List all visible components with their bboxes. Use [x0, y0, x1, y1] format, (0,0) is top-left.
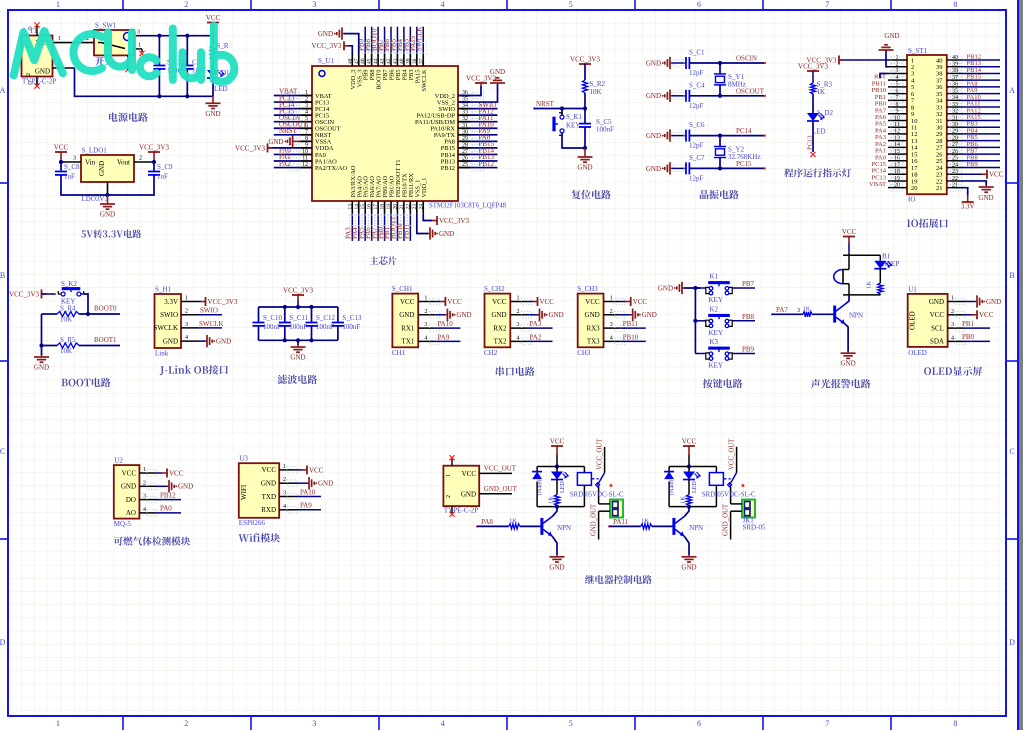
power VCC_3V3 filter	[297, 295, 299, 300]
svg-text:GND: GND	[978, 194, 993, 202]
svg-text:VCC: VCC	[169, 469, 184, 477]
MCUclub logo watermark	[14, 26, 235, 82]
svg-text:BOOT0: BOOT0	[94, 305, 117, 313]
net label PA15 (vertical)	[416, 27, 418, 54]
resistor S_R4 10K	[42, 313, 58, 315]
svg-text:44: 44	[373, 58, 379, 64]
svg-text:10: 10	[894, 115, 900, 121]
title: main chip	[370, 256, 397, 265]
net label BOOT0 (vertical)	[377, 27, 379, 54]
svg-text:TX3: TX3	[587, 338, 600, 346]
svg-text:ESP8266: ESP8266	[239, 519, 266, 527]
power VCC_3V3 at U1 VDD_1 bottom pin	[423, 214, 432, 221]
power VCC_3V3 at H1 pin1	[198, 301, 201, 303]
svg-text:24: 24	[418, 204, 424, 210]
U2 pin 4 AO	[139, 512, 155, 514]
power VCC_3V3 at U1 VDD_3 top pin	[344, 46, 352, 54]
svg-text:GND: GND	[491, 311, 506, 319]
net label PB12 wire	[961, 59, 1000, 61]
svg-text:MQ-5: MQ-5	[114, 520, 132, 528]
ST1 pin 10	[888, 119, 907, 121]
relay 1K resistor	[556, 479, 558, 495]
svg-text:KEY: KEY	[566, 122, 580, 130]
svg-text:RX3: RX3	[586, 324, 600, 332]
svg-text:19: 19	[894, 176, 900, 182]
ST1 pin 4	[888, 79, 907, 81]
svg-text:CH1: CH1	[392, 349, 406, 357]
capacitor S_C2 100n	[158, 36, 160, 66]
connector S_T1 TYPE-C-2P	[22, 36, 53, 77]
relay coil	[577, 473, 591, 486]
svg-text:2: 2	[305, 97, 308, 103]
net label SWCLK (vertical)	[422, 27, 424, 54]
svg-text:VCC_3V3: VCC_3V3	[312, 42, 342, 50]
alarm bottom node wire	[843, 294, 880, 296]
title: BOOT circuit	[61, 378, 110, 387]
net PA10	[434, 327, 460, 329]
svg-text:S_C1: S_C1	[689, 49, 705, 57]
svg-text:3: 3	[424, 322, 427, 328]
U1 right pin 26 PB13	[458, 160, 470, 162]
U1 top pin 42 PB6	[390, 54, 392, 66]
U1 OLED pin 2 VCC	[948, 314, 963, 316]
svg-text:U1: U1	[908, 285, 917, 293]
svg-text:22: 22	[952, 176, 958, 182]
diode 1N4007	[664, 471, 674, 473]
svg-text:1: 1	[424, 296, 427, 302]
no-connect pin 1 of S_SW1	[134, 48, 142, 50]
H1 pin 4 GND	[181, 340, 198, 342]
svg-text:TYPE-C-2P: TYPE-C-2P	[444, 507, 478, 515]
svg-text:SRD-05VDC-SL-C: SRD-05VDC-SL-C	[702, 492, 756, 499]
transistor NPN relay driver	[540, 518, 543, 535]
ST1 pin 32	[947, 113, 961, 115]
net label PB4 (vertical)	[403, 27, 405, 54]
key K2	[695, 320, 705, 322]
svg-text:S_R4: S_R4	[60, 305, 76, 313]
net PB8	[732, 320, 755, 322]
svg-text:2: 2	[26, 73, 32, 76]
svg-text:27: 27	[952, 142, 958, 148]
svg-text:30: 30	[462, 129, 468, 135]
svg-text:32: 32	[462, 116, 468, 122]
svg-text:VCC: VCC	[585, 298, 600, 306]
U1 top pin 47 VSS_3	[358, 54, 360, 66]
S_CH1 pin 2 GND	[418, 314, 434, 316]
svg-text:100nF: 100nF	[342, 323, 360, 331]
net label OSCOUT	[274, 127, 301, 129]
svg-text:KEY: KEY	[709, 329, 723, 337]
net label PA8	[470, 140, 498, 142]
svg-text:LED: LED	[692, 481, 698, 493]
svg-text:14: 14	[894, 142, 900, 148]
svg-text:GND: GND	[646, 59, 661, 67]
svg-text:D: D	[0, 638, 6, 647]
net label PB8 (vertical)	[371, 27, 373, 54]
svg-text:43: 43	[380, 58, 386, 64]
svg-text:PA2/TX/AO: PA2/TX/AO	[315, 165, 347, 172]
svg-text:S_CH1: S_CH1	[392, 285, 413, 293]
net label PA11 wire	[961, 106, 1000, 108]
U1 OLED pin 4 SDA	[948, 340, 963, 342]
net label PB13	[470, 160, 498, 162]
power VCC_3V3 indicator	[812, 70, 814, 72]
capacitor S_C6 12pF	[672, 135, 686, 137]
ST1 pin 17	[888, 167, 907, 169]
ST1 pin 23	[947, 173, 961, 175]
terminal wires	[599, 503, 610, 505]
capacitor S_C13 100nF	[337, 307, 339, 323]
relay switch	[723, 478, 730, 480]
S_CH3 pin 1 VCC	[604, 301, 620, 303]
svg-text:GND: GND	[986, 298, 1001, 306]
capacitor S_C9 1uF	[153, 152, 155, 162]
net label PB12	[470, 167, 498, 169]
power VCC relay driver	[556, 446, 558, 455]
svg-text:VCC_3V3: VCC_3V3	[439, 217, 469, 225]
ST1 pin 1	[888, 59, 907, 61]
H1 pin 1 3.3V	[181, 301, 198, 303]
relay 1K resistor	[688, 479, 690, 495]
ST1 pin 21	[947, 187, 961, 189]
ground for S_C4	[670, 95, 672, 97]
U2 pin 1 VCC	[139, 472, 155, 474]
svg-text:1uF: 1uF	[157, 173, 168, 181]
ground at U1 VSSA pin	[295, 140, 301, 142]
svg-text:12pF: 12pF	[689, 69, 704, 77]
svg-text:16: 16	[894, 156, 900, 162]
U1 top pin 46 PB9	[364, 54, 366, 66]
ground for S_C6	[670, 135, 672, 137]
svg-text:GND_OUT: GND_OUT	[484, 485, 518, 493]
svg-text:LED: LED	[214, 85, 228, 93]
ST1 pin 13	[888, 140, 907, 142]
svg-text:OLED: OLED	[908, 349, 927, 357]
svg-text:GND: GND	[646, 165, 661, 173]
svg-text:VDD_1: VDD_1	[421, 178, 428, 198]
svg-text:C: C	[1009, 447, 1014, 456]
resistor S_R2 10K	[582, 80, 587, 93]
svg-text:100nF: 100nF	[263, 323, 281, 331]
svg-text:VCC: VCC	[842, 228, 857, 236]
svg-text:NPN: NPN	[689, 524, 703, 532]
svg-text:7: 7	[825, 0, 829, 9]
ground at U1 VSS_3 top pin	[344, 34, 359, 54]
ST1 pin 15	[888, 153, 907, 155]
no-connect pin 4 of S_SW1	[127, 55, 129, 68]
capacitor S_C7 12pF	[672, 167, 686, 169]
ST1 pin 7	[888, 99, 907, 101]
svg-text:40: 40	[952, 55, 958, 61]
net label PB10 (vertical)	[403, 214, 405, 241]
input net PA11	[608, 525, 610, 527]
svg-text:GND: GND	[461, 491, 476, 499]
ST1 pin 36	[947, 86, 961, 88]
svg-text:13: 13	[347, 204, 353, 210]
U1 bottom pin 24 VDD_1	[422, 201, 424, 214]
svg-text:GND: GND	[261, 480, 276, 488]
net label PB7 (vertical)	[384, 27, 386, 54]
svg-text:S_C7: S_C7	[689, 154, 705, 162]
svg-text:GND: GND	[34, 364, 49, 372]
svg-text:23: 23	[952, 169, 958, 175]
transistor Q NPN of alarm	[833, 306, 836, 323]
svg-text:7: 7	[305, 129, 308, 135]
net label PB7 wire	[961, 153, 1000, 155]
svg-text:16: 16	[367, 204, 373, 210]
svg-text:4: 4	[951, 335, 954, 341]
ground at U1 VSS_1 bottom pin	[417, 214, 428, 234]
net label PB0 (vertical)	[384, 214, 386, 241]
net label PB9 wire	[961, 167, 1000, 169]
svg-text:PA10: PA10	[300, 488, 316, 496]
svg-text:12pF: 12pF	[689, 142, 704, 150]
svg-text:GND: GND	[884, 32, 899, 40]
svg-text:S_R: S_R	[217, 42, 229, 50]
svg-text:Vout: Vout	[117, 159, 130, 167]
wire to PC13	[812, 121, 814, 153]
svg-text:D: D	[1009, 638, 1015, 647]
svg-text:4: 4	[424, 335, 427, 341]
ST1 pin 22	[947, 180, 961, 182]
svg-text:3: 3	[137, 30, 140, 36]
ST1 pin 12	[888, 133, 907, 135]
power 3.3V at ST1 pin21	[961, 188, 968, 195]
svg-text:6: 6	[896, 88, 899, 94]
svg-text:3: 3	[517, 322, 520, 328]
ground GND of power circuit	[212, 96, 214, 103]
net label PA6 (vertical)	[371, 214, 373, 241]
U1 bottom pin 19 PB1/AO	[390, 201, 392, 214]
LED D1	[212, 60, 214, 70]
svg-text:PB10: PB10	[623, 333, 639, 341]
svg-text:10: 10	[302, 149, 308, 155]
svg-text:GND: GND	[646, 92, 661, 100]
U1 top pin 48 VDD_3	[351, 54, 353, 66]
net label PA9 wire	[961, 93, 1000, 95]
title: reset circuit	[571, 190, 610, 199]
svg-text:20: 20	[911, 185, 918, 192]
svg-text:3: 3	[312, 719, 316, 728]
no-ERC marks on output connector	[451, 459, 453, 466]
svg-text:1K: 1K	[548, 496, 555, 504]
svg-text:1: 1	[517, 296, 520, 302]
relay switch	[591, 478, 598, 480]
svg-text:S_D2: S_D2	[817, 109, 833, 117]
svg-text:SRD-05: SRD-05	[743, 524, 766, 532]
svg-text:18: 18	[894, 169, 900, 175]
ST1 pin 18	[888, 173, 907, 175]
power VCC at S_CH3	[620, 301, 626, 303]
svg-text:34: 34	[952, 95, 958, 101]
svg-text:12: 12	[302, 162, 308, 168]
svg-text:VCC: VCC	[122, 469, 137, 477]
ground at U1 VSS_2 pin	[458, 84, 498, 102]
svg-text:VCC_3V3: VCC_3V3	[235, 144, 265, 152]
ground for S_C7	[670, 167, 672, 169]
wire to net PC15	[689, 167, 765, 169]
U1 left pin 8 VSSA	[300, 140, 312, 142]
svg-text:2: 2	[517, 309, 520, 315]
svg-text:14: 14	[354, 204, 360, 210]
svg-text:B: B	[1009, 271, 1014, 280]
svg-text:13: 13	[894, 135, 900, 141]
svg-text:WIFI: WIFI	[240, 484, 248, 500]
net BOOT0	[79, 313, 120, 315]
svg-text:GND: GND	[399, 311, 414, 319]
svg-text:PA2: PA2	[279, 160, 291, 168]
svg-text:PB11: PB11	[403, 223, 411, 239]
svg-text:VCC: VCC	[462, 470, 477, 478]
net label PB15 wire	[961, 79, 1000, 81]
power VCC alarm	[848, 237, 850, 244]
net label PA4 (vertical)	[358, 214, 360, 241]
net PA2	[527, 340, 553, 342]
net PB7	[732, 287, 755, 289]
svg-text:2: 2	[896, 62, 899, 68]
net label PA11	[470, 121, 498, 123]
connector S_CH1	[392, 294, 418, 348]
title: sound-light alarm circuit	[811, 379, 871, 388]
ST1 pin 24	[947, 167, 961, 169]
svg-text:VCC_OUT: VCC_OUT	[597, 438, 604, 470]
net label PB13 wire	[961, 66, 1000, 68]
svg-text:4: 4	[283, 504, 286, 510]
svg-text:3: 3	[283, 491, 286, 497]
svg-text:Link: Link	[155, 350, 169, 358]
ST1 pin 2	[888, 66, 907, 68]
svg-text:SWIO: SWIO	[160, 311, 178, 319]
U3 pin 4 RXD	[279, 509, 295, 511]
svg-text:2: 2	[184, 719, 188, 728]
U1 right pin 34 SWIO	[458, 108, 470, 110]
svg-text:3.3V: 3.3V	[164, 298, 178, 306]
U1 right pin 35 VSS_2	[458, 101, 470, 103]
net label PC15	[274, 114, 301, 116]
svg-text:4: 4	[441, 719, 445, 728]
title: program run indicator LED	[784, 168, 851, 177]
svg-text:S_C6: S_C6	[689, 121, 705, 129]
ST1 pin 14	[888, 146, 907, 148]
svg-text:3: 3	[312, 0, 316, 9]
svg-text:GND_OUT: GND_OUT	[591, 503, 598, 536]
svg-text:23: 23	[412, 204, 418, 210]
net PB11	[620, 327, 646, 329]
U1 right pin 36 VDD_2	[458, 95, 470, 97]
ground at OLED pin1	[963, 301, 975, 303]
svg-text:S_C9: S_C9	[157, 163, 173, 171]
title: power circuit	[109, 113, 148, 122]
svg-text:32: 32	[952, 109, 958, 115]
svg-text:17: 17	[373, 204, 379, 210]
svg-text:2: 2	[283, 477, 286, 483]
svg-text:3: 3	[896, 68, 899, 74]
U1 left pin 10 PA0	[300, 153, 312, 155]
net label OSCIN	[274, 121, 301, 123]
svg-text:VCC: VCC	[206, 14, 221, 22]
power VCC_3V3 reset	[584, 63, 586, 65]
svg-text:21: 21	[399, 204, 405, 210]
svg-text:GND: GND	[658, 284, 673, 292]
H1 pin 3 SWCLK	[181, 327, 198, 329]
svg-text:35: 35	[952, 88, 958, 94]
capacitor S_C12 100nF	[311, 307, 313, 323]
svg-text:25: 25	[952, 156, 958, 162]
U1 right pin 32 PA11/USB/DM	[458, 121, 470, 123]
H1 pin 2 SWIO	[181, 314, 198, 316]
svg-text:1: 1	[610, 296, 613, 302]
capacitor S_C8 1uF	[60, 162, 62, 172]
svg-text:KEY: KEY	[709, 296, 723, 304]
net label PA15 wire	[961, 119, 1000, 121]
net label PB6 (vertical)	[390, 27, 392, 54]
svg-text:4: 4	[517, 335, 520, 341]
power VCC_3V3 at ST1 pin1	[839, 59, 888, 61]
svg-text:GND: GND	[549, 311, 564, 319]
svg-text:TX2: TX2	[494, 338, 507, 346]
S_CH2 pin 4 TX2	[510, 340, 526, 342]
svg-text:SWCLK: SWCLK	[415, 27, 423, 52]
net VCC_OUT	[479, 472, 512, 474]
net label PB3 wire	[961, 126, 1000, 128]
capacitor S_C4 12pF	[672, 95, 686, 97]
S_CH2 pin 2 GND	[510, 314, 526, 316]
title: Wifi module	[238, 533, 280, 542]
svg-text:2: 2	[446, 495, 452, 498]
svg-text:GND: GND	[456, 311, 471, 319]
LDO ground pin wire	[107, 182, 109, 195]
svg-text:LED: LED	[560, 481, 566, 493]
ground of filter	[297, 340, 299, 345]
svg-text:K2: K2	[710, 305, 719, 313]
ground at ST1 pin22	[961, 181, 986, 185]
svg-text:GND: GND	[585, 311, 600, 319]
crystal S_Y1 8MHz	[718, 61, 722, 65]
ST1 pin 9	[888, 113, 907, 115]
svg-text:C: C	[0, 447, 5, 456]
svg-text:K1: K1	[710, 273, 719, 281]
title: key circuit	[703, 379, 743, 388]
relay coil	[709, 473, 723, 486]
U1 top pin 43 PB7	[384, 54, 386, 66]
svg-text:GND: GND	[216, 338, 231, 346]
svg-text:S_H1: S_H1	[155, 286, 171, 294]
wire to net PC14	[689, 135, 765, 137]
U1 right pin 25 PB12	[458, 167, 470, 169]
ground of alarm	[847, 352, 849, 354]
svg-text:GND: GND	[318, 30, 333, 38]
net label PA10	[470, 127, 498, 129]
svg-text:PA7: PA7	[776, 306, 788, 314]
svg-text:40: 40	[399, 58, 405, 64]
net label PB5 wire	[961, 140, 1000, 142]
svg-text:K3: K3	[710, 338, 719, 346]
U1 top pin 40 PB4	[403, 54, 405, 66]
svg-text:8: 8	[896, 102, 899, 108]
svg-text:SWCLK: SWCLK	[154, 324, 179, 332]
svg-text:S_C8: S_C8	[64, 163, 80, 171]
svg-text:GND: GND	[577, 164, 592, 172]
ST1 pin 16	[888, 160, 907, 162]
svg-text:31: 31	[462, 123, 468, 129]
filter top rail	[259, 306, 338, 308]
ground of BOOT circuit	[41, 346, 43, 356]
net BOOT1	[79, 345, 120, 347]
net label PA0	[274, 153, 301, 155]
wire to net OSCOUT	[689, 95, 765, 97]
U2 pin 3 DO	[139, 499, 155, 501]
U1 bottom pin 14 PA4/AO	[358, 201, 360, 214]
